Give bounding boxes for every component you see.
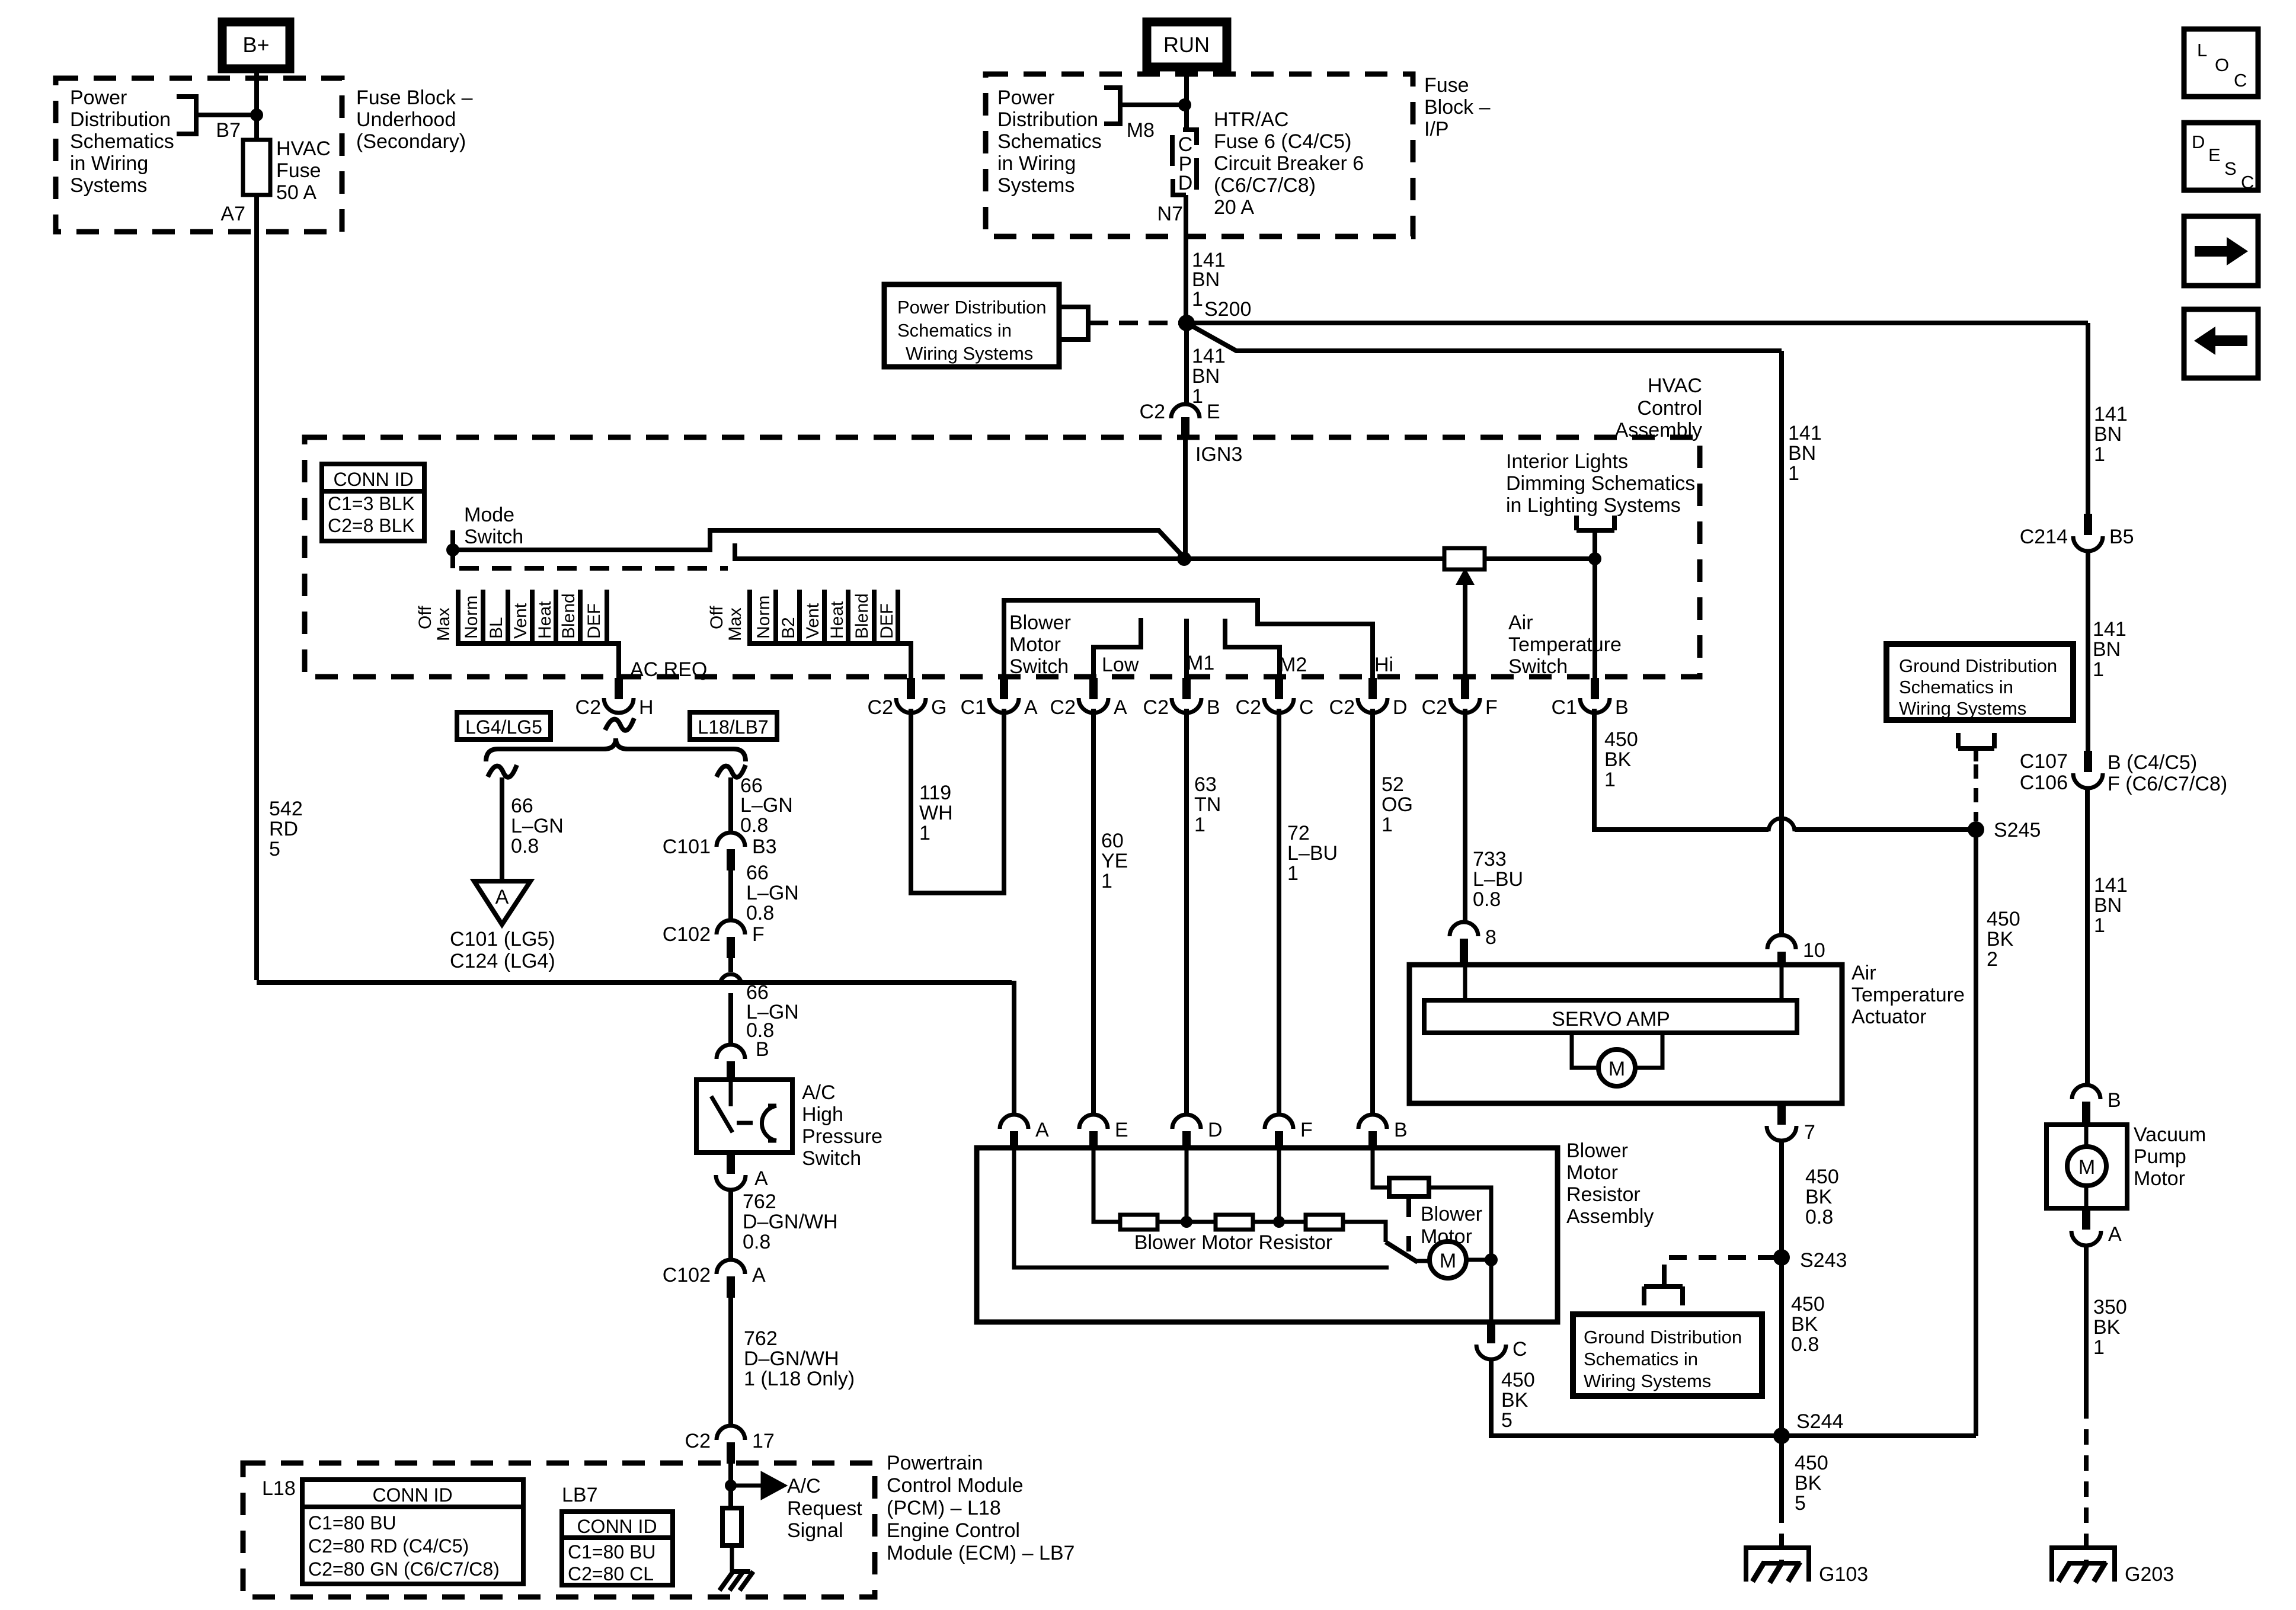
svg-text:High: High (802, 1103, 843, 1126)
svg-text:Motor: Motor (1009, 633, 1061, 656)
dashed reference link to S200 (1089, 321, 1179, 325)
svg-text:B7: B7 (216, 119, 241, 142)
vacuum pump motor M (2067, 1125, 2106, 1208)
interior lights dimming reference label (1506, 450, 1695, 559)
wire 762 D-GN/WH 1 (L18 only) (728, 1298, 733, 1427)
wire 733 L-BU 0.8 (air temp switch to actuator pin 8) (1463, 709, 1467, 923)
node A/C request junction (725, 1480, 737, 1491)
wire resistor 1 to junction D (1157, 1220, 1216, 1224)
wire label 60 YE 1 (1101, 830, 1128, 892)
off-page arrow A (to C101/C124) (474, 881, 530, 924)
svg-text:Power: Power (997, 87, 1054, 109)
svg-text:Wiring Systems: Wiring Systems (1584, 1371, 1711, 1391)
blower switch contact M1 (1184, 619, 1189, 679)
svg-text:Vacuum: Vacuum (2134, 1124, 2206, 1146)
svg-text:2: 2 (1987, 948, 1998, 971)
svg-text:O: O (2215, 55, 2229, 75)
svg-text:in Wiring: in Wiring (70, 152, 148, 175)
crossover hop over 542 RD wire (720, 974, 741, 985)
svg-text:1: 1 (1788, 462, 1799, 485)
wire label 63 TN 1 (1194, 773, 1221, 836)
wire pin 8 to servo amp (1463, 962, 1467, 1000)
PCM dashed box (243, 1463, 875, 1597)
svg-text:A: A (1035, 1119, 1049, 1141)
svg-text:63: 63 (1194, 773, 1217, 796)
svg-text:B: B (1615, 696, 1629, 719)
wire B to thermal limiter (1373, 1148, 1389, 1188)
svg-text:Norm: Norm (462, 596, 481, 639)
svg-text:BK: BK (1987, 928, 2014, 950)
svg-text:542: 542 (269, 798, 303, 820)
svg-text:C2: C2 (1236, 696, 1261, 719)
svg-text:S200: S200 (1204, 298, 1251, 321)
svg-text:Schematics: Schematics (997, 130, 1102, 153)
svg-text:8: 8 (1485, 926, 1496, 949)
svg-text:C: C (2234, 70, 2247, 91)
connector C (resistor assembly) (1476, 1322, 1527, 1361)
svg-text:Fuse Block –: Fuse Block – (356, 87, 473, 109)
wire label 450 BK 5 (below S244) (1795, 1452, 1828, 1515)
svg-text:141: 141 (2094, 874, 2128, 897)
connector 10 (air temp actuator) (1767, 935, 1825, 966)
svg-text:C1: C1 (961, 696, 986, 719)
svg-text:Engine Control: Engine Control (887, 1519, 1020, 1542)
svg-text:HTR/AC: HTR/AC (1214, 108, 1289, 131)
svg-text:Blend: Blend (852, 593, 872, 639)
svg-text:A: A (2108, 1223, 2122, 1246)
svg-text:HVAC: HVAC (276, 137, 331, 160)
svg-text:Blower: Blower (1566, 1140, 1628, 1162)
wire label 66 L-GN 0.8 (left branch) (511, 795, 564, 857)
wire resistor 3 output to contact (1343, 1222, 1386, 1242)
connector C1 B (1552, 678, 1629, 719)
relay contact ticks (1406, 1196, 1411, 1251)
svg-text:A: A (752, 1264, 766, 1286)
wire right branch 66 L-GN 0.8 (728, 777, 733, 834)
svg-text:60: 60 (1101, 830, 1124, 852)
svg-text:Systems: Systems (70, 174, 147, 197)
svg-text:C107: C107 (2020, 750, 2068, 773)
svg-text:C2=8 BLK: C2=8 BLK (328, 515, 415, 536)
connector F (resistor assembly) (1265, 1115, 1313, 1148)
svg-text:D: D (2192, 132, 2205, 152)
svg-text:RUN: RUN (1163, 33, 1210, 57)
svg-text:Low: Low (1102, 654, 1139, 676)
destination label C101 (LG5) C124 (LG4) (450, 928, 555, 972)
svg-text:Power: Power (70, 87, 127, 109)
vacuum pump motor label (2134, 1124, 2206, 1190)
wire C101 to C102 (728, 870, 733, 921)
wire U-link C2 G to C1 A (119 WH) (911, 709, 1004, 893)
svg-text:BK: BK (1791, 1313, 1818, 1336)
svg-text:F: F (1485, 696, 1498, 719)
node dimming junction (1588, 552, 1601, 565)
node B+ feed junction (250, 108, 263, 121)
LG4/LG5 box (457, 712, 551, 740)
svg-text:Max: Max (725, 607, 745, 641)
connector D (resistor assembly) (1172, 1115, 1223, 1148)
A/C high pressure switch label (802, 1081, 882, 1170)
illumination resistor (dimming) (1444, 548, 1485, 569)
svg-text:L18: L18 (262, 1477, 296, 1500)
connector C102 F (663, 920, 765, 958)
svg-text:M: M (1440, 1250, 1456, 1272)
blower switch contact Low (1093, 618, 1141, 679)
wire label 141 BN 1 (below S200) (1192, 345, 1226, 408)
HVAC control assembly label (1615, 375, 1702, 441)
blower motor M (1416, 1241, 1491, 1278)
svg-text:CONN ID: CONN ID (577, 1516, 657, 1537)
A/C request signal label (787, 1475, 862, 1542)
svg-text:A: A (754, 1167, 768, 1190)
svg-text:(PCM) – L18: (PCM) – L18 (887, 1497, 1001, 1519)
wire RUN down (1184, 67, 1189, 129)
wire label 119 WH 1 (919, 782, 953, 844)
wire label 72 L-BU 1 (1287, 822, 1338, 885)
svg-text:Vent: Vent (511, 603, 530, 639)
fuse HVAC 50A (243, 137, 331, 204)
svg-text:72: 72 (1287, 822, 1310, 844)
svg-text:in Lighting Systems: in Lighting Systems (1506, 494, 1681, 517)
connector B (A/C high pressure switch) (717, 1038, 769, 1081)
svg-text:BN: BN (2094, 894, 2122, 917)
left arrow navigation box (2184, 309, 2258, 378)
HVAC control assembly dashed box (305, 437, 1700, 677)
connector C2 F (1422, 678, 1498, 719)
svg-text:C2: C2 (575, 696, 601, 719)
svg-text:C2=80 RD (C4/C5): C2=80 RD (C4/C5) (308, 1535, 469, 1557)
svg-text:L–GN: L–GN (740, 794, 793, 817)
svg-text:E: E (2208, 145, 2221, 165)
svg-text:Schematics in: Schematics in (1584, 1349, 1698, 1369)
wire limiter to motor feed (1429, 1188, 1491, 1322)
svg-text:B2: B2 (779, 617, 798, 639)
svg-text:Norm: Norm (754, 596, 773, 639)
svg-text:A/C: A/C (802, 1081, 836, 1104)
svg-text:M8: M8 (1127, 119, 1155, 142)
wire 450 BK 0.8 (7 to S243) (1779, 1140, 1784, 1436)
blower switch contact M2 (1225, 619, 1280, 679)
svg-text:BK: BK (2093, 1316, 2121, 1339)
svg-text:M1: M1 (1187, 652, 1214, 674)
svg-text:LG4/LG5: LG4/LG5 (465, 716, 542, 738)
svg-text:BN: BN (2094, 423, 2122, 446)
wire break squiggle right branch (717, 765, 746, 777)
RUN ignition terminal symbol (1147, 22, 1227, 67)
svg-text:66: 66 (511, 795, 533, 817)
svg-text:762: 762 (743, 1190, 776, 1213)
svg-text:Ground Distribution: Ground Distribution (1899, 655, 2057, 676)
svg-text:TN: TN (1194, 793, 1221, 816)
svg-text:CONN ID: CONN ID (333, 469, 413, 490)
ground distribution schematics box (right) (1886, 644, 2073, 720)
wire 450 BK 2 from S245 down (1974, 830, 1978, 1436)
node S200 splice (1178, 298, 1251, 331)
svg-text:C1: C1 (1552, 696, 1577, 719)
svg-text:141: 141 (1788, 422, 1822, 444)
wire label 762 D-GN/WH 1 (L18 Only) (744, 1327, 855, 1390)
connector B (vacuum pump) (2072, 1085, 2121, 1123)
svg-text:C101 (LG5): C101 (LG5) (450, 928, 555, 950)
svg-text:5: 5 (269, 838, 280, 860)
svg-text:Fuse 6 (C4/C5): Fuse 6 (C4/C5) (1214, 130, 1351, 153)
svg-text:C2=80 CL: C2=80 CL (568, 1563, 654, 1585)
wire 60 YE 1 (Low to resistor E) (1091, 709, 1096, 1116)
svg-text:C2: C2 (685, 1430, 711, 1452)
resistor element 2 (1216, 1215, 1253, 1230)
svg-text:A: A (1114, 696, 1127, 719)
svg-text:Air: Air (1508, 612, 1533, 634)
svg-text:7: 7 (1804, 1121, 1815, 1144)
svg-text:C102: C102 (663, 1264, 711, 1286)
svg-text:F: F (1300, 1119, 1313, 1141)
svg-text:C: C (1299, 696, 1314, 719)
svg-text:in Wiring: in Wiring (997, 152, 1076, 175)
svg-text:Distribution: Distribution (997, 108, 1098, 131)
wire label 542 RD 5 (269, 798, 303, 860)
thermal limiter resistor (1389, 1178, 1429, 1196)
svg-text:BK: BK (1805, 1186, 1833, 1208)
svg-text:S244: S244 (1796, 1410, 1843, 1433)
wire label 350 BK 1 (2093, 1296, 2127, 1359)
dashed wire to G103 (1779, 1507, 1784, 1562)
crossover hop over actuator feed wire (1769, 818, 1795, 831)
wire label 66 L-GN 0.8 (above C101) (740, 774, 793, 837)
PCM internal resistor (722, 1508, 741, 1545)
power distribution schematics reference (I/P) (997, 87, 1179, 197)
svg-text:Heat: Heat (827, 601, 847, 639)
svg-text:350: 350 (2093, 1296, 2127, 1318)
svg-text:Temperature: Temperature (1508, 633, 1622, 656)
wire 72 L-BU 1 (M2 to resistor F) (1277, 709, 1281, 1116)
resistor element 1 (1120, 1215, 1157, 1230)
svg-text:BN: BN (1192, 365, 1220, 388)
blower motor resistor assembly box (977, 1148, 1558, 1322)
dashed link S243 to ground reference (1664, 1257, 1776, 1275)
fuse block underhood dashed box (56, 78, 342, 232)
connector C2 C (1236, 678, 1314, 719)
svg-text:WH: WH (919, 802, 953, 824)
wire label 66 L-GN 0.8 (above connector B) (746, 981, 799, 1042)
svg-text:Resistor: Resistor (1566, 1183, 1641, 1206)
connector C101 B3 (663, 833, 777, 870)
svg-text:F (C6/C7/C8): F (C6/C7/C8) (2108, 773, 2227, 795)
svg-text:BK: BK (1501, 1389, 1528, 1411)
svg-text:762: 762 (744, 1327, 778, 1350)
wire label 450 BK 5 (connector C) (1501, 1369, 1535, 1432)
svg-text:Request: Request (787, 1497, 862, 1520)
wire C107 down to vacuum pump (2085, 787, 2090, 1086)
svg-text:Air: Air (1851, 962, 1876, 984)
connector C2 D (1329, 678, 1408, 719)
CONN ID table (LB7) (562, 1512, 673, 1585)
svg-text:C2=80 GN (C6/C7/C8): C2=80 GN (C6/C7/C8) (308, 1558, 500, 1580)
wire label 141 BN 1 (top right) (2094, 403, 2128, 466)
svg-text:141: 141 (1192, 345, 1226, 367)
wire F down (1277, 1148, 1281, 1222)
svg-text:L–GN: L–GN (746, 882, 799, 904)
mode switch label (464, 504, 523, 548)
svg-text:C: C (2241, 172, 2254, 193)
svg-text:B (C4/C5): B (C4/C5) (2108, 751, 2197, 774)
wire 450 BK 5 (S244 to G103) (1779, 1436, 1784, 1507)
wire C102 down with crossover hop (728, 958, 733, 1045)
svg-text:5: 5 (1795, 1492, 1806, 1515)
A/C high pressure switch (696, 1080, 792, 1153)
connector B (resistor assembly) (1358, 1115, 1408, 1148)
connector C2 A (1050, 678, 1127, 719)
svg-text:20 A: 20 A (1214, 196, 1254, 219)
wire B+ down to fuse (254, 69, 259, 140)
dashed wire to G203 (2084, 1403, 2089, 1562)
fuse block underhood label (356, 87, 473, 153)
right arrow navigation box (2184, 216, 2258, 286)
svg-text:50 A: 50 A (276, 181, 316, 204)
wire label 141 BN 1 (right middle) (2093, 618, 2126, 681)
svg-text:N7: N7 (1157, 203, 1183, 225)
svg-text:Ground Distribution: Ground Distribution (1584, 1327, 1742, 1347)
vacuum pump motor box (2046, 1125, 2127, 1208)
svg-text:1 (L18 Only): 1 (L18 Only) (744, 1368, 855, 1390)
svg-text:BN: BN (1788, 442, 1816, 465)
svg-text:1: 1 (2093, 1336, 2105, 1359)
node IGN3 bus junction (1177, 552, 1191, 566)
connector C1 A (961, 678, 1038, 719)
mode switch position comb 2 (707, 590, 911, 679)
wire label 762 D-GN/WH 0.8 (743, 1190, 838, 1253)
circuit breaker CPD (HTR/AC fuse 6 / circuit breaker 6) (1172, 130, 1197, 195)
svg-text:I/P: I/P (1424, 118, 1449, 140)
blower motor resistor assembly label (1566, 1140, 1654, 1228)
svg-text:C2: C2 (1050, 696, 1076, 719)
svg-text:1: 1 (2094, 914, 2105, 937)
wire break squiggle below C2 H (605, 718, 634, 731)
svg-text:E: E (1115, 1119, 1128, 1141)
svg-text:Dimming Schematics: Dimming Schematics (1506, 472, 1695, 495)
wire 762 D-GN/WH 0.8 (728, 1189, 733, 1261)
svg-text:450: 450 (1501, 1369, 1535, 1391)
svg-text:Blend: Blend (559, 593, 578, 639)
svg-text:Underhood: Underhood (356, 108, 456, 131)
svg-text:(Secondary): (Secondary) (356, 130, 466, 153)
svg-text:Interior Lights: Interior Lights (1506, 450, 1628, 473)
wire 450 BK 1 (C1 B to S245) (1594, 709, 1976, 830)
svg-text:1: 1 (1287, 862, 1299, 885)
svg-text:A/C: A/C (787, 1475, 821, 1497)
svg-text:B3: B3 (752, 836, 777, 858)
mode switch position comb 1 (415, 590, 619, 679)
svg-text:450: 450 (1791, 1293, 1825, 1315)
resistor element 3 (1306, 1215, 1343, 1230)
svg-text:Signal: Signal (787, 1519, 843, 1542)
A/C request signal arrow (731, 1474, 784, 1497)
svg-text:C101: C101 (663, 836, 711, 858)
wire junction down to C1 B (1593, 559, 1597, 679)
svg-text:Pressure: Pressure (802, 1125, 882, 1148)
svg-text:1: 1 (1192, 288, 1203, 311)
svg-text:0.8: 0.8 (746, 902, 774, 924)
wire D down (1185, 1148, 1189, 1222)
bracket below ground distribution box (right) (1958, 733, 1994, 761)
svg-text:C1=80 BU: C1=80 BU (308, 1512, 396, 1534)
svg-text:DEF: DEF (877, 603, 897, 639)
wire label 141 BN 1 (actuator branch) (1788, 422, 1822, 485)
wire S244 right leg up to S245 (1782, 1433, 1976, 1438)
svg-text:Blower: Blower (1009, 612, 1071, 634)
svg-text:B+: B+ (242, 33, 269, 57)
svg-text:A7: A7 (220, 203, 245, 225)
svg-text:M2: M2 (1279, 654, 1307, 676)
svg-text:450: 450 (1604, 728, 1638, 751)
connector A (vacuum pump) (2071, 1208, 2122, 1246)
CONN ID table (L18) (302, 1480, 523, 1584)
svg-text:0.8: 0.8 (743, 1231, 770, 1253)
connector A (resistor assembly) (1000, 1115, 1049, 1148)
wire label 141 BN 1 (right lower) (2094, 874, 2128, 937)
servo amp block (1424, 1000, 1797, 1033)
svg-text:10: 10 (1803, 939, 1825, 962)
connector C102 A (663, 1260, 766, 1298)
CONN ID table (HVAC) (322, 464, 424, 541)
svg-text:C102: C102 (663, 923, 711, 946)
svg-text:Schematics in: Schematics in (897, 320, 1012, 341)
svg-text:Temperature: Temperature (1851, 984, 1965, 1006)
svg-text:M: M (2078, 1156, 2095, 1179)
svg-text:Control Module: Control Module (887, 1474, 1024, 1497)
svg-text:Systems: Systems (997, 174, 1075, 197)
wire S200 branch to air temp actuator pin 10 (1187, 323, 1782, 936)
svg-text:Distribution: Distribution (70, 108, 171, 131)
svg-text:B: B (2108, 1089, 2121, 1112)
svg-text:0.8: 0.8 (1805, 1206, 1833, 1228)
svg-text:Max: Max (434, 607, 453, 641)
svg-text:AC REQ: AC REQ (630, 658, 707, 681)
connector E (resistor assembly) (1079, 1115, 1128, 1148)
svg-text:D: D (1393, 696, 1408, 719)
wire E to resistor chain (1093, 1148, 1120, 1222)
svg-text:733: 733 (1473, 848, 1507, 870)
connector C2 B (1143, 678, 1220, 719)
svg-text:S: S (2224, 158, 2237, 179)
wire S200 down to C2 E (1184, 323, 1189, 404)
wire break squiggle left branch (488, 765, 517, 777)
connector C2 17 (685, 1426, 775, 1464)
svg-text:H: H (639, 696, 654, 719)
svg-text:Fuse: Fuse (276, 159, 321, 182)
B+ battery terminal symbol (222, 22, 290, 69)
svg-text:0.8: 0.8 (740, 814, 768, 837)
svg-text:S245: S245 (1994, 819, 2041, 841)
svg-text:141: 141 (2093, 618, 2126, 641)
svg-text:450: 450 (1805, 1166, 1839, 1188)
svg-text:Motor: Motor (1421, 1225, 1472, 1248)
connector C214 B5 (2020, 514, 2134, 551)
fuse block I/P dashed box (986, 74, 1413, 236)
svg-text:Wiring Systems: Wiring Systems (1899, 698, 2026, 719)
svg-text:BL: BL (487, 617, 506, 639)
svg-text:Power Distribution: Power Distribution (897, 297, 1047, 318)
svg-text:A: A (495, 886, 509, 908)
svg-text:C1=3 BLK: C1=3 BLK (328, 493, 415, 514)
svg-text:1: 1 (2093, 658, 2104, 681)
svg-text:LB7: LB7 (562, 1484, 598, 1506)
svg-text:D: D (1208, 1119, 1223, 1141)
svg-text:DEF: DEF (584, 603, 604, 639)
svg-text:OG: OG (1382, 793, 1413, 816)
L18/LB7 box (690, 712, 777, 740)
svg-text:A: A (1024, 696, 1038, 719)
wire label 450 BK 0.8 (lower) (1791, 1293, 1825, 1356)
